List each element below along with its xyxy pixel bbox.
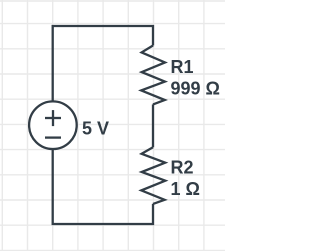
- wire from V1 + terminal up the left side and across the top to R1 top pin: [53, 26, 153, 101]
- resistor R1 zigzag body: [141, 46, 165, 105]
- svg-text:999 Ω: 999 Ω: [171, 79, 220, 99]
- voltage source V1 circle body: [29, 101, 77, 149]
- voltage source V1 plus polarity mark vertical bar: [52, 110, 54, 126]
- voltage source V1 plus polarity mark horizontal bar: [45, 117, 61, 119]
- wire from V1 - terminal down the left side and across the bottom to R2 bottom pin: [53, 150, 153, 224]
- voltage source V1 minus polarity mark: [45, 136, 61, 138]
- wire from R1 bottom pin to R2 top pin: [152, 104, 154, 147]
- svg-text:R1: R1: [171, 57, 194, 77]
- svg-text:R2: R2: [171, 158, 194, 178]
- svg-text:5 V: 5 V: [82, 118, 109, 138]
- svg-text:1 Ω: 1 Ω: [171, 179, 200, 199]
- resistor R2 zigzag body: [141, 147, 165, 204]
